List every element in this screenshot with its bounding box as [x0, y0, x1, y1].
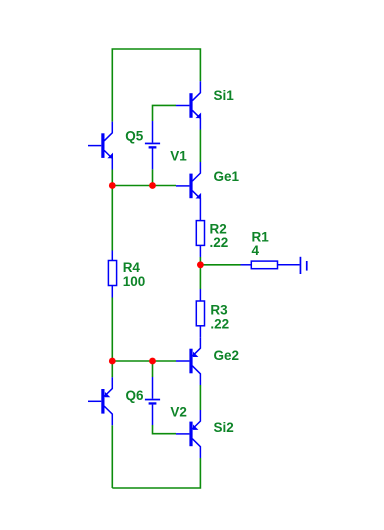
wire node E to R3 top — [199, 265, 201, 289]
junction node D — [149, 358, 156, 365]
junction node B — [149, 182, 156, 189]
svg-text:100: 100 — [123, 274, 146, 289]
svg-text:V2: V2 — [170, 405, 187, 420]
battery V1 — [145, 121, 160, 169]
wire left rail: Q5 emitter to node A — [111, 170, 113, 186]
battery terminal right — [300, 257, 308, 274]
svg-text:V1: V1 — [170, 148, 187, 163]
junction node E — [197, 261, 204, 268]
wire bottom rail — [112, 458, 200, 488]
svg-text:Si1: Si1 — [214, 88, 235, 103]
svg-text:Ge2: Ge2 — [214, 348, 240, 363]
wire node E to R1 — [200, 264, 240, 266]
wire V1 bottom to node B — [152, 169, 154, 185]
svg-text:.22: .22 — [210, 317, 229, 332]
svg-text:Si2: Si2 — [214, 420, 234, 435]
svg-text:Q5: Q5 — [125, 128, 144, 143]
wire node A to R4 — [111, 186, 113, 251]
transistor Ge2 (PNP) — [176, 337, 200, 385]
resistor R3 — [196, 289, 204, 337]
wire Si1 base to V1 top — [153, 105, 177, 121]
wire Si1 emitter to Ge1 collector — [199, 130, 201, 163]
wire top rail — [112, 49, 200, 122]
svg-text:R4: R4 — [123, 260, 141, 275]
wire Q6 collector to bottom rail — [111, 425, 113, 488]
resistor R4 — [108, 251, 116, 298]
wire V2 bottom to Si2 base — [153, 425, 177, 434]
transistor Si2 (PNP) — [176, 410, 200, 458]
wire row node A to Ge1 base — [112, 185, 176, 187]
transistor Q6 (PNP) — [88, 377, 112, 425]
svg-text:R3: R3 — [210, 303, 228, 318]
svg-text:Ge1: Ge1 — [214, 169, 240, 184]
svg-text:Q6: Q6 — [126, 388, 145, 403]
resistor R2 — [196, 210, 204, 257]
battery V2 — [145, 377, 160, 425]
junction node A — [109, 182, 116, 189]
wire Ge2 collector to Si2 emitter — [199, 385, 201, 410]
wire node C to Q6 emitter — [111, 361, 113, 377]
transistor Q5 — [88, 122, 113, 170]
wire R2 bottom to node E — [199, 257, 201, 265]
wire R4 to node C — [111, 298, 113, 362]
transistor Si1 — [176, 81, 201, 129]
transistor Ge1 — [176, 162, 201, 210]
wire row node C to Ge2 base — [112, 360, 176, 362]
resistor R1 — [241, 261, 300, 269]
svg-text:4: 4 — [252, 243, 260, 258]
wire node D to V2 top — [152, 361, 154, 377]
svg-text:.22: .22 — [210, 235, 229, 250]
junction node C — [109, 358, 116, 365]
